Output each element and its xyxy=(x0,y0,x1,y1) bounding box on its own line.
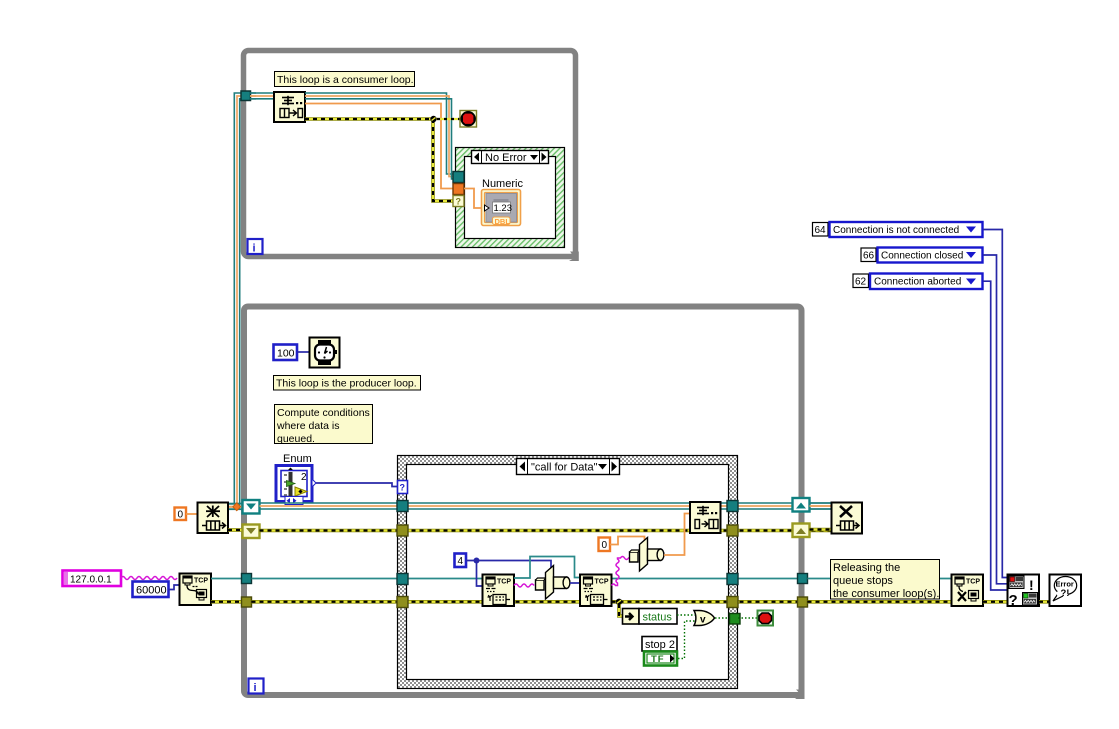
while loop consumer corner arrow xyxy=(569,252,579,262)
svg-text:TCP: TCP xyxy=(497,579,511,586)
tunnel case left olive (TCP error) xyxy=(397,597,408,608)
tunnel case left teal (TCP conn) xyxy=(397,574,408,585)
TCP read node 1 xyxy=(483,575,515,607)
wire pink string to TCP open xyxy=(121,577,177,580)
svg-text:TF: TF xyxy=(651,654,665,665)
label "stop 2" xyxy=(642,637,677,652)
wire queue into dequeue xyxy=(250,93,273,99)
wire orange type cast 2 to enqueue xyxy=(664,514,690,556)
wire error TCP open to loop tunnel (dashed) xyxy=(211,600,242,604)
constant 0 (DBL type) xyxy=(599,538,611,552)
svg-text:Connection closed: Connection closed xyxy=(881,251,963,262)
release queue node xyxy=(832,503,863,534)
stop function xyxy=(460,111,477,128)
wire teal TCP out of loop to TCP close xyxy=(808,578,952,580)
wire error cluster across producer loop (dashed) xyxy=(260,529,832,533)
svg-text:where data is: where data is xyxy=(276,420,339,432)
svg-text:queue stops: queue stops xyxy=(833,575,893,587)
svg-text:i: i xyxy=(253,243,256,255)
constant 66 label xyxy=(861,248,876,262)
node junction orange diamond at queue branch xyxy=(233,503,241,511)
tunnel consumer loop left (queue) xyxy=(241,91,251,101)
wire blue 60000 to TCP open xyxy=(169,585,180,590)
wire queue bundle to release queue xyxy=(810,503,832,509)
string constant 127.0.0.1 xyxy=(63,571,122,587)
ring constant "Connection closed" xyxy=(878,248,983,263)
shift register left olive (error) xyxy=(243,525,260,539)
wire pink TCP read 2 data up to type cast 2 xyxy=(612,557,631,586)
svg-text:0: 0 xyxy=(602,540,608,551)
shift register right teal (queue) xyxy=(793,498,810,512)
ring constant "Connection is not connected" xyxy=(830,222,983,237)
label "This loop is a consumer loop." xyxy=(275,72,415,87)
tunnel case right teal (queue) xyxy=(727,501,738,512)
tunnel case right teal (TCP conn) xyxy=(727,574,738,585)
tunnel producer left teal (TCP conn) xyxy=(242,574,252,584)
wire teal TCP conn across case xyxy=(252,578,515,580)
wire green stop2 to OR xyxy=(678,621,696,659)
tunnel case right olive (error) xyxy=(727,525,738,536)
TCP open connection node xyxy=(180,574,212,606)
svg-text:No Error: No Error xyxy=(485,152,527,164)
wire error TCP out of loop (dashed) xyxy=(808,600,952,604)
wire green tunnel to conditional terminal xyxy=(738,617,757,619)
type cast node 1 xyxy=(536,566,570,600)
svg-text:?: ? xyxy=(456,197,462,207)
wait (ms) node xyxy=(310,338,340,368)
svg-text:the consumer loop(s).: the consumer loop(s). xyxy=(833,588,939,600)
case label "No Error" xyxy=(472,151,549,165)
while loop producer (border) xyxy=(244,307,802,696)
wire queue bundle across producer loop xyxy=(260,503,832,509)
constant 4 (bytes to read) xyxy=(455,554,467,568)
error filter VI (clear errors) xyxy=(1008,575,1040,610)
svg-text:0: 0 xyxy=(178,510,184,521)
svg-text:TCP: TCP xyxy=(595,579,609,586)
tunnel case left teal (queue) xyxy=(397,501,408,512)
svg-text:1.23: 1.23 xyxy=(494,203,513,214)
wire queue refnum vertical from Obtain Queue up to consumer loop xyxy=(228,93,256,509)
tunnel case right green (boolean) xyxy=(730,614,741,625)
svg-text:?: ? xyxy=(1009,592,1018,609)
svg-text:?: ? xyxy=(400,483,406,493)
label "This loop is the producer loop." xyxy=(274,376,421,391)
TCP read node 2 xyxy=(580,575,612,607)
wire teal TCP conn main run to loop tunnel xyxy=(211,578,242,580)
tunnel case orange (element) xyxy=(453,184,464,195)
wire error to release queue (dashed) xyxy=(810,528,832,532)
svg-text:Numeric: Numeric xyxy=(482,178,523,190)
tunnel case selector "?" xyxy=(453,196,464,207)
tunnel producer right teal (TCP conn) xyxy=(798,574,808,584)
wire orange 0 to type cast 2 type input xyxy=(610,537,645,545)
svg-text:100: 100 xyxy=(277,348,295,360)
enum control xyxy=(276,466,316,505)
wire error filter to handler (dashed) xyxy=(1039,600,1049,604)
wire blue 4 to TCP read 1 and type cast 1 xyxy=(466,561,482,587)
case label "call for Data" xyxy=(517,459,620,475)
svg-text:v: v xyxy=(700,615,706,626)
type cast node 2 xyxy=(630,538,664,572)
shift register left teal (queue) xyxy=(243,500,260,514)
svg-text:62: 62 xyxy=(855,277,867,288)
label "Releasing the queue stops the consumer loop(s)." xyxy=(831,560,940,601)
dequeue element node xyxy=(274,92,305,122)
OR gate xyxy=(694,611,715,626)
svg-text:Connection aborted: Connection aborted xyxy=(874,277,961,288)
ring constant "Connection aborted" xyxy=(870,274,983,290)
constant 100 (wait ms) xyxy=(274,345,298,361)
svg-text:"call for Data": "call for Data" xyxy=(531,462,598,474)
svg-text:Compute conditions: Compute conditions xyxy=(277,407,370,419)
wire element (orange) dequeue to case tunnel xyxy=(305,104,453,189)
constant 62 label xyxy=(853,274,869,288)
conditional terminal (stop if true) xyxy=(758,611,774,626)
wire error junction to status unbundle xyxy=(616,599,622,605)
wire green OR to tunnel xyxy=(715,617,728,619)
svg-text:4: 4 xyxy=(458,556,464,567)
svg-text:This loop is the producer loop: This loop is the producer loop. xyxy=(276,378,417,390)
svg-text:queued.: queued. xyxy=(277,433,315,445)
svg-text:60000: 60000 xyxy=(136,585,167,597)
wire blue type cast 1 to TCP read 2 xyxy=(570,582,580,584)
svg-text:Enum: Enum xyxy=(283,453,312,465)
while loop consumer (border) xyxy=(244,51,576,257)
wire pink TCP read 1 data to type cast 1 xyxy=(514,584,534,587)
constant 64 label xyxy=(813,223,829,237)
svg-text:127.0.0.1: 127.0.0.1 xyxy=(70,575,112,586)
selector terminal "?" xyxy=(398,481,408,494)
svg-text:TCP: TCP xyxy=(966,579,980,586)
obtain queue node xyxy=(198,503,229,534)
svg-text:Connection is not connected: Connection is not connected xyxy=(833,225,959,236)
constant 60000 xyxy=(133,582,169,598)
iteration terminal producer [i] xyxy=(249,679,264,695)
wire blue ring1 to error filter xyxy=(983,230,1008,578)
tunnel case right olive (TCP error) xyxy=(727,597,738,608)
wire blue enum to case selector xyxy=(316,483,397,487)
constant 0 (queue element type) xyxy=(175,508,187,521)
svg-text:status: status xyxy=(643,612,673,624)
svg-text:TCP: TCP xyxy=(194,578,208,585)
unbundle by name "status" xyxy=(623,609,678,625)
wire green status to OR xyxy=(677,614,695,616)
wire error TCP close to filter (dashed) xyxy=(983,600,1008,604)
wire blue 100 to wait xyxy=(297,351,309,353)
svg-text:66: 66 xyxy=(863,251,875,262)
tunnel producer left olive (error) xyxy=(242,597,252,607)
svg-text:Releasing the: Releasing the xyxy=(833,562,900,574)
wire blue ring3 to error filter xyxy=(983,281,1008,590)
tunnel producer right olive (TCP error) xyxy=(798,597,808,607)
wire queue out of dequeue to case tunnel xyxy=(305,93,453,179)
shift register right olive (error) xyxy=(793,524,810,538)
wire blue ring2 to error filter xyxy=(983,255,1008,584)
enqueue element node xyxy=(690,502,721,533)
indicator Numeric DBL xyxy=(482,190,521,226)
svg-text:2: 2 xyxy=(301,472,307,483)
wire orange tunnel to numeric xyxy=(464,189,485,209)
svg-text:!: ! xyxy=(1029,577,1034,593)
wire teal TCP conn over type cast 1 xyxy=(514,557,580,579)
wire error obtain queue to shift register (dashed) xyxy=(228,528,243,532)
svg-text:This loop is a consumer loop.: This loop is a consumer loop. xyxy=(277,74,414,86)
svg-text:?!: ?! xyxy=(1061,588,1070,599)
wire error stub to stop xyxy=(436,118,460,120)
boolean terminal TF stop 2 xyxy=(644,652,677,666)
node error wire junction xyxy=(430,116,436,122)
iteration terminal consumer [i] xyxy=(248,239,263,255)
svg-text:DBL: DBL xyxy=(495,217,511,226)
wire error dequeue out (dashed) xyxy=(305,119,453,201)
while loop producer corner arrow xyxy=(795,690,805,700)
svg-text:64: 64 xyxy=(815,225,827,236)
svg-text:stop 2: stop 2 xyxy=(645,639,675,651)
TCP close connection node xyxy=(952,575,984,607)
tunnel case left olive (error) xyxy=(397,525,408,536)
simple error handler node xyxy=(1050,575,1082,607)
wire orange 0 to obtain queue xyxy=(186,513,197,515)
case structure "call for Data" (checkered border) xyxy=(398,456,738,689)
label "Compute conditions where data is queued." xyxy=(275,405,373,446)
case structure "No Error" xyxy=(456,148,565,248)
svg-text:i: i xyxy=(254,682,257,694)
tunnel case teal (queue) xyxy=(453,172,464,183)
wire error TCP across case (dashed) xyxy=(252,600,798,604)
